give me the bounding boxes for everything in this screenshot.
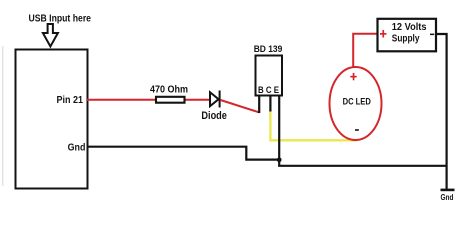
wire: supply - to ground xyxy=(436,34,447,189)
label: - (LED cathode) xyxy=(355,129,359,131)
USB input arrow xyxy=(43,24,58,47)
svg-text:Diode: Diode xyxy=(201,110,227,122)
svg-text:B C E: B C E xyxy=(258,84,279,95)
ground symbol xyxy=(441,189,455,192)
transistor Q1 BD139 body xyxy=(256,56,283,96)
power supply box xyxy=(378,19,437,52)
wire: diode to transistor base (red) xyxy=(221,100,260,112)
diode D1 xyxy=(210,91,220,108)
pin C lead xyxy=(269,96,271,113)
svg-text:470 Ohm: 470 Ohm xyxy=(150,84,188,95)
pin E lead and wire to ground bus xyxy=(279,96,446,166)
wire: board Gnd to emitter node xyxy=(87,147,278,160)
svg-text:USB Input here: USB Input here xyxy=(29,14,92,25)
svg-text:Gnd: Gnd xyxy=(441,193,454,202)
pin B lead xyxy=(258,96,260,113)
LED (DC LED) xyxy=(330,67,382,140)
junction: ground node at emitter lead xyxy=(277,157,282,162)
svg-text:Pin 21: Pin 21 xyxy=(57,94,84,106)
label: + (LED anode) xyxy=(350,73,356,80)
label: + (supply positive) xyxy=(380,30,386,38)
wire: supply + to LED anode (red) xyxy=(353,34,376,68)
svg-text:Gnd: Gnd xyxy=(68,142,86,154)
svg-text:Supply: Supply xyxy=(392,32,420,44)
wire: resistor to diode (red) xyxy=(186,99,210,101)
wire: collector to LED cathode (yellow) xyxy=(270,112,357,141)
resistor 470 Ohm xyxy=(156,97,185,103)
svg-text:DC LED: DC LED xyxy=(343,96,371,107)
USB board box xyxy=(16,50,88,189)
label: - (supply negative) xyxy=(430,34,434,36)
wire: Pin 21 to resistor (red) xyxy=(87,99,155,101)
svg-text:BD 139: BD 139 xyxy=(254,44,283,55)
svg-text:12 Volts: 12 Volts xyxy=(392,21,427,33)
